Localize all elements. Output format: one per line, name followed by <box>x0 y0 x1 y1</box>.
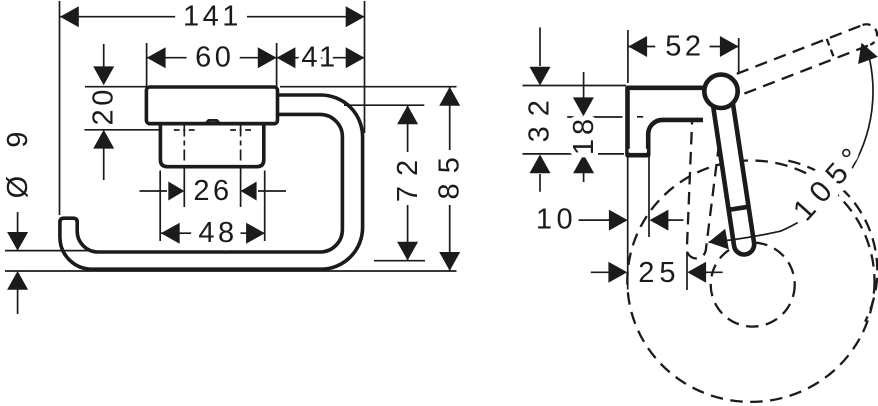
svg-text:85: 85 <box>434 147 466 199</box>
svg-text:20: 20 <box>88 86 120 125</box>
svg-text:Ø 9: Ø 9 <box>2 122 34 199</box>
svg-text:41: 41 <box>301 42 336 74</box>
svg-text:18: 18 <box>568 115 600 155</box>
svg-text:10: 10 <box>536 203 577 235</box>
svg-text:60: 60 <box>195 42 234 74</box>
svg-text:141: 141 <box>183 1 242 33</box>
svg-text:48: 48 <box>198 217 237 249</box>
svg-text:52: 52 <box>665 31 704 63</box>
svg-text:26: 26 <box>193 175 232 207</box>
svg-text:72: 72 <box>392 150 424 202</box>
svg-text:25: 25 <box>638 257 680 289</box>
svg-text:32: 32 <box>524 90 556 142</box>
